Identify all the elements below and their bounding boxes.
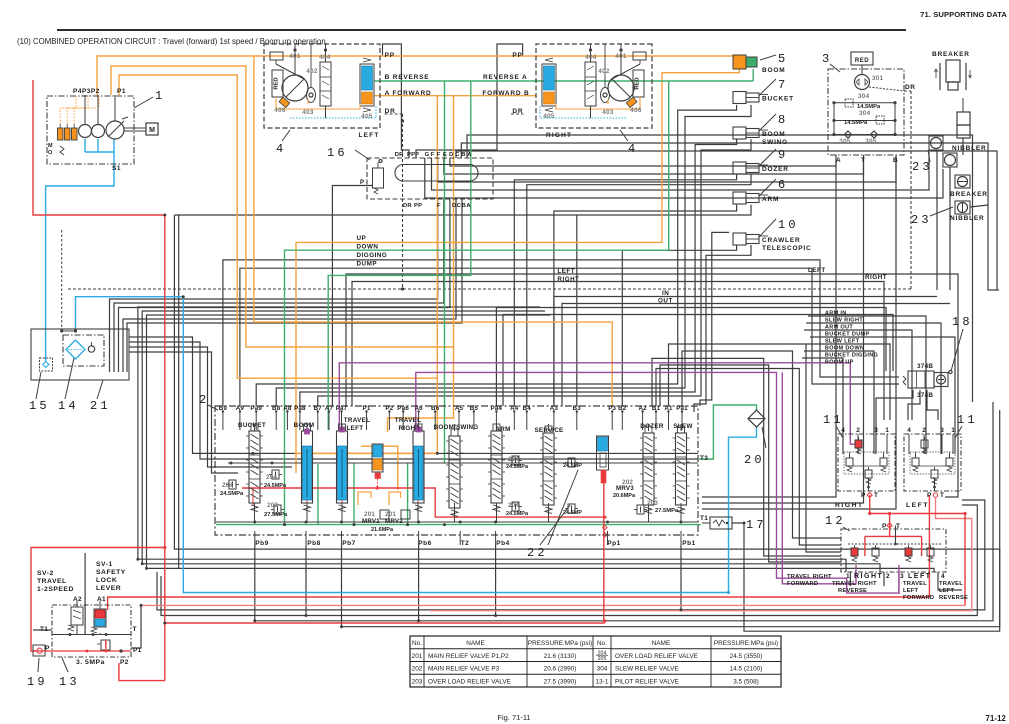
svg-text:9: 9 <box>778 148 788 162</box>
wire block16 P port west down to valve <box>332 186 372 407</box>
svg-text:23: 23 <box>912 160 933 174</box>
valve spool top stubs <box>254 424 256 431</box>
drain dash right motor DR <box>511 113 523 115</box>
relief MRV1 MRV2 <box>380 510 389 519</box>
travel left spool <box>337 431 348 503</box>
green tank bus T1 <box>216 524 701 526</box>
svg-text:F: F <box>437 203 441 209</box>
purple travel right pilot line <box>416 372 899 593</box>
svg-text:24.5MPa: 24.5MPa <box>220 491 244 497</box>
nibbler symbol top <box>962 98 964 112</box>
svg-text:RIGHT: RIGHT <box>854 573 883 580</box>
green short riser travel right <box>407 463 409 525</box>
svg-text:18: 18 <box>952 315 973 329</box>
svg-text:MAIN RELIEF VALVE P1,P2: MAIN RELIEF VALVE P1,P2 <box>428 653 509 660</box>
svg-text:304: 304 <box>858 93 870 100</box>
wire block12 port stubs <box>849 572 851 586</box>
drain dash left motor DR <box>385 113 403 115</box>
travel pilot block 12 outline <box>841 529 946 572</box>
svg-text:374B: 374B <box>917 392 933 399</box>
filter diamond 14 <box>66 340 85 359</box>
svg-text:305: 305 <box>865 138 877 145</box>
svg-text:No.: No. <box>597 640 607 647</box>
svg-text:P: P <box>360 180 364 186</box>
wire block16 staircase east D <box>450 158 836 166</box>
purple second riser to item 12 <box>782 372 856 583</box>
svg-text:20.6 (2990): 20.6 (2990) <box>544 666 577 673</box>
wire second left vertical <box>178 215 180 568</box>
svg-text:404: 404 <box>319 54 331 61</box>
svg-text:14.5MPa: 14.5MPa <box>844 120 868 126</box>
svg-text:1-2SPEED: 1-2SPEED <box>37 586 74 593</box>
svg-text:T: T <box>896 523 900 530</box>
wire slew left pilot line <box>806 344 890 420</box>
wire Pb9 pilot route <box>255 402 993 621</box>
wire block16 staircase east A <box>467 135 973 402</box>
svg-text:4: 4 <box>276 142 286 156</box>
wire bottom bus 1 <box>157 500 985 610</box>
svg-text:Pb1: Pb1 <box>682 540 695 547</box>
svg-text:24.5MP: 24.5MP <box>563 463 582 469</box>
svg-text:No.: No. <box>412 640 422 647</box>
wire block16 staircase east B <box>461 143 999 290</box>
svg-text:402: 402 <box>306 68 318 75</box>
relief valve 204 service upper <box>568 458 575 467</box>
sv2 solenoid valve <box>71 607 83 625</box>
boom connector item 5 orange square <box>733 55 746 69</box>
svg-text:P: P <box>861 492 866 499</box>
pump main circle <box>106 121 124 139</box>
wire block16 staircase east E <box>444 158 864 174</box>
orange main gallery in valve block <box>295 452 438 454</box>
wire tank east link 3 <box>129 347 292 467</box>
wire sv P1 east <box>131 605 141 648</box>
P3 inlet spool blue <box>597 436 609 470</box>
block13 T bus <box>52 634 131 636</box>
svg-text:RED: RED <box>274 77 280 89</box>
bucket spool <box>249 431 260 503</box>
svg-text:G: G <box>425 152 430 158</box>
svg-text:BOOM UP: BOOM UP <box>825 360 854 366</box>
arm spool <box>491 431 502 503</box>
travel motor internal wires <box>294 44 296 75</box>
svg-text:TRAVEL: TRAVEL <box>903 581 927 587</box>
wire travel left label line <box>346 274 958 497</box>
boom spool <box>302 431 313 503</box>
svg-text:BUCKET DIGGING: BUCKET DIGGING <box>825 353 878 359</box>
svg-text:3: 3 <box>874 427 878 434</box>
svg-text:DR: DR <box>512 108 523 115</box>
relief valve service lower <box>568 504 575 513</box>
travel motor block 4 LEFT group <box>264 44 380 128</box>
wire Pb6 pilot route <box>418 545 420 621</box>
relief 203 dozer <box>637 505 644 514</box>
svg-text:OVER LOAD RELIEF VALVE: OVER LOAD RELIEF VALVE <box>615 653 698 660</box>
travel motor circle <box>608 75 634 101</box>
svg-text:Fig. 71-11: Fig. 71-11 <box>497 713 530 722</box>
svg-text:203: 203 <box>647 500 658 507</box>
svg-text:Pp1: Pp1 <box>607 540 620 547</box>
svg-text:21: 21 <box>90 399 111 413</box>
travel motor brake box 401 <box>633 52 646 60</box>
svg-text:BOOM: BOOM <box>294 422 315 429</box>
wire block16 staircase east F <box>438 158 896 182</box>
slew relief 304 lower <box>876 116 884 124</box>
red second bottom line <box>430 498 972 611</box>
travel motor circle <box>282 75 308 101</box>
orange gallery segment right <box>361 446 398 490</box>
valve bottom port stubs <box>254 531 256 545</box>
travel motor RED tag <box>633 70 644 97</box>
green T3 to check valve 20 <box>699 405 757 459</box>
pilot manifold block 16 outline <box>367 158 493 199</box>
svg-text:REVERSE: REVERSE <box>939 595 968 601</box>
wire out line <box>562 304 950 407</box>
relief valve 203 boom <box>274 505 281 514</box>
svg-text:2: 2 <box>856 427 860 434</box>
svg-text:27.5MPa: 27.5MPa <box>655 508 679 514</box>
block 13 outline <box>52 605 131 657</box>
svg-text:A: A <box>836 157 841 164</box>
svg-text:24.5MPa: 24.5MPa <box>506 464 529 470</box>
svg-text:11: 11 <box>957 413 978 427</box>
check valve item 20 diamond <box>748 410 765 427</box>
item 18 solenoid valve 374B <box>903 376 906 385</box>
pump unit block 1 outline <box>47 96 134 164</box>
travel motor internal wires <box>620 44 622 75</box>
svg-text:8: 8 <box>778 113 788 127</box>
drain dashed line horizontal <box>68 288 911 290</box>
wire sv block T1 line <box>33 629 52 631</box>
svg-text:T1: T1 <box>700 515 708 522</box>
svg-text:204: 204 <box>222 482 233 489</box>
main control valve block 2 outline <box>215 406 698 535</box>
cyan filter to tank long line <box>76 297 757 593</box>
wire right mid riser 3 <box>669 344 842 552</box>
red main relief gallery valve block <box>242 488 604 517</box>
svg-text:RIGHT: RIGHT <box>865 274 887 281</box>
svg-text:E: E <box>443 152 447 158</box>
svg-text:3: 3 <box>940 427 944 434</box>
motor box M <box>146 123 158 135</box>
orange bracket mrv1 <box>358 492 371 505</box>
red sv-1 A1 pilot line east <box>108 495 930 610</box>
svg-text:16: 16 <box>327 146 348 160</box>
wire digging line <box>223 260 899 406</box>
svg-text:FORWARD: FORWARD <box>787 581 818 587</box>
svg-text:Pb8: Pb8 <box>307 540 320 547</box>
sv1 solenoid valve <box>94 609 106 627</box>
travel motor block 4 outline <box>536 44 652 128</box>
svg-text:1: 1 <box>155 89 165 103</box>
travel motor shuttle 403 <box>307 88 316 103</box>
dozer connector item 9 <box>733 162 746 174</box>
breaker nibbler wires <box>936 150 938 290</box>
svg-text:204: 204 <box>266 474 277 481</box>
wire bottom bus 2 <box>161 505 977 616</box>
svg-text:FORWARD B: FORWARD B <box>482 90 529 97</box>
svg-text:27.5 (3990): 27.5 (3990) <box>544 678 577 685</box>
svg-text:B: B <box>461 152 465 158</box>
svg-text:PP: PP <box>414 203 422 209</box>
svg-text:4: 4 <box>907 427 911 434</box>
svg-text:RED: RED <box>855 58 869 64</box>
svg-text:Pb9: Pb9 <box>255 540 268 547</box>
svg-text:LEFT: LEFT <box>903 588 919 594</box>
svg-text:BREAKER: BREAKER <box>932 51 970 58</box>
svg-text:19: 19 <box>27 675 48 689</box>
travel motor internal cyan dotted drain <box>290 106 376 118</box>
svg-text:203: 203 <box>267 502 278 509</box>
svg-text:305: 305 <box>839 138 851 145</box>
svg-text:DR: DR <box>905 84 915 91</box>
dozer spool <box>643 433 654 505</box>
page header rule <box>57 29 906 31</box>
wire tank east link 1 <box>129 337 216 453</box>
svg-text:DR: DR <box>403 203 412 209</box>
svg-text:404: 404 <box>585 54 597 61</box>
svg-text:LEFT: LEFT <box>908 573 932 580</box>
svg-text:REVERSE: REVERSE <box>838 588 867 594</box>
wire Pb7 pilot route <box>342 410 1000 627</box>
svg-text:RIGHT: RIGHT <box>557 276 579 283</box>
wire dozer connector line 1 <box>514 174 736 406</box>
svg-text:A1: A1 <box>97 596 106 603</box>
svg-text:406: 406 <box>630 107 642 114</box>
svg-text:S1: S1 <box>112 165 121 172</box>
svg-text:Pb4: Pb4 <box>496 540 509 547</box>
svg-text:NAME: NAME <box>652 640 670 647</box>
orange pump P3 supply line <box>119 75 437 378</box>
svg-text:LEFT: LEFT <box>808 267 826 274</box>
svg-text:24.5MPa: 24.5MPa <box>506 511 529 517</box>
wire staircase to nibbler <box>425 158 943 198</box>
svg-text:201: 201 <box>385 511 396 518</box>
orange travel supply down to P2 <box>388 96 454 432</box>
svg-text:(10) COMBINED OPERATION CIRCUI: (10) COMBINED OPERATION CIRCUIT : Travel… <box>17 37 326 46</box>
travel speed spool blue <box>542 64 556 106</box>
svg-text:203: 203 <box>412 678 423 685</box>
green boom connector stub <box>752 69 754 81</box>
svg-text:21.6 (3130): 21.6 (3130) <box>544 653 577 660</box>
wire PP right motor to pilot block 16 <box>416 44 523 158</box>
svg-text:LEFT: LEFT <box>347 425 364 432</box>
svg-text:10: 10 <box>778 218 799 232</box>
svg-text:24.5 (3550): 24.5 (3550) <box>730 653 763 660</box>
svg-text:BUCKET: BUCKET <box>238 422 266 429</box>
relief valve 204 arm lower <box>512 502 519 511</box>
wire boom swing connector line 1 <box>300 139 737 406</box>
red pink long bottom line <box>141 604 965 606</box>
slew DR dotted <box>869 87 904 91</box>
svg-text:PRESSURE:MPa (psi): PRESSURE:MPa (psi) <box>714 640 778 647</box>
wire right mid riser 1 <box>652 358 841 556</box>
boom swing spool <box>449 436 460 508</box>
svg-text:Pb6: Pb6 <box>418 540 431 547</box>
svg-text:24.5MPa: 24.5MPa <box>264 483 287 489</box>
wire Pb4 pilot route <box>495 545 497 616</box>
wire PP left motor to pilot block 16 <box>383 44 410 158</box>
wire arm connector line 1 <box>554 205 737 406</box>
wire dozer connector line 2 <box>527 174 751 406</box>
svg-text:1: 1 <box>846 573 850 580</box>
wire arm in pilot line <box>808 316 926 454</box>
svg-text:3. 5MPa: 3. 5MPa <box>76 659 105 666</box>
orange pump P1 supply line <box>97 56 733 95</box>
orange P1 riser down <box>436 96 438 454</box>
wire crawler connector line 3 <box>700 232 729 406</box>
svg-text:2: 2 <box>886 573 890 580</box>
svg-text:BOOM/SWING: BOOM/SWING <box>434 424 479 431</box>
svg-text:P: P <box>927 492 932 499</box>
wire tank return 5 <box>127 199 462 372</box>
svg-text:PP: PP <box>385 52 395 59</box>
slew motor block 3 outline <box>828 69 904 155</box>
svg-text:D: D <box>449 152 453 158</box>
wire arm connector line 2 <box>577 205 751 406</box>
wire pump line y215 east <box>174 214 576 216</box>
svg-text:402: 402 <box>598 68 610 75</box>
red mrv3 drop <box>603 474 605 621</box>
svg-text:4: 4 <box>941 573 945 580</box>
svg-text:304: 304 <box>859 110 871 117</box>
nibbler symbol lower <box>955 201 970 214</box>
svg-text:NIBBLER: NIBBLER <box>950 215 985 222</box>
svg-text:21.6MPa: 21.6MPa <box>371 527 394 533</box>
svg-text:A FORWARD: A FORWARD <box>385 90 432 97</box>
svg-text:BOOM DOWN: BOOM DOWN <box>825 346 864 352</box>
pump port stubs <box>84 95 86 125</box>
slew motor circle <box>855 75 870 90</box>
green digging pilot line <box>328 81 471 430</box>
block16 oval body <box>395 165 478 182</box>
svg-text:SV-1: SV-1 <box>96 561 113 568</box>
svg-text:13-1: 13-1 <box>596 678 609 685</box>
wire crawler connector line 2 <box>694 245 751 412</box>
tank dashed drain in <box>61 230 63 331</box>
pump gear circle 1 <box>79 125 92 138</box>
svg-text:2: 2 <box>922 427 926 434</box>
bucket connector item 7 <box>733 92 746 104</box>
svg-text:5: 5 <box>778 52 788 66</box>
travel right spool <box>413 431 424 503</box>
orange plug 406 <box>626 97 637 107</box>
svg-text:22: 22 <box>527 546 548 560</box>
svg-text:LEFT: LEFT <box>939 588 955 594</box>
filter inner dash box <box>63 335 104 366</box>
svg-text:BUCKET: BUCKET <box>762 96 794 103</box>
svg-text:M: M <box>48 143 53 149</box>
wire slew motor port A down <box>702 155 836 497</box>
wire right mid riser 2 <box>660 365 841 562</box>
wire boom down pilot line <box>804 351 874 454</box>
orange boom up pilot from connector 5 <box>296 69 739 473</box>
green short riser boom swing <box>353 463 355 525</box>
pump shaft <box>124 127 146 129</box>
orange main gallery overlay <box>295 452 438 454</box>
svg-text:14: 14 <box>58 399 79 413</box>
svg-text:204: 204 <box>508 456 519 463</box>
svg-text:23: 23 <box>911 213 932 227</box>
valve spool bottom stubs <box>254 503 256 522</box>
slew RED tag <box>851 52 873 65</box>
cyan junction dot <box>727 591 730 594</box>
svg-text:TRAVEL: TRAVEL <box>939 581 963 587</box>
wire arm out pilot line <box>804 330 912 420</box>
svg-text:TRAVEL RIGHT: TRAVEL RIGHT <box>787 574 832 580</box>
svg-text:DOWN: DOWN <box>357 244 379 251</box>
cyan drain to filter box <box>46 139 114 361</box>
svg-text:PILOT RELIEF VALVE: PILOT RELIEF VALVE <box>615 678 679 685</box>
service spool <box>543 433 554 505</box>
svg-text:RIGHT: RIGHT <box>835 502 864 509</box>
svg-text:3: 3 <box>822 52 832 66</box>
svg-text:ARM OUT: ARM OUT <box>825 325 853 331</box>
block12 T drop <box>895 526 897 545</box>
green boom down pilot line <box>285 81 669 525</box>
svg-text:201: 201 <box>412 653 423 660</box>
slew spool <box>676 433 687 505</box>
wire bucket connector line 2 <box>276 105 751 406</box>
svg-text:DOZER: DOZER <box>762 166 789 173</box>
wire travel right label line <box>352 282 884 421</box>
wire right mid riser 4 <box>682 351 841 538</box>
purple travel left pilot line <box>339 363 856 444</box>
svg-text:FORWARD: FORWARD <box>903 595 934 601</box>
relief valve 204 bucket left <box>229 480 236 489</box>
wire slew motor port B down <box>702 155 896 509</box>
wire bucket dump pilot line <box>810 337 955 454</box>
svg-text:27.5MPa: 27.5MPa <box>264 512 288 518</box>
wire right mid riser 5 <box>656 369 841 546</box>
svg-text:TRAVEL RIGHT: TRAVEL RIGHT <box>832 581 877 587</box>
svg-text:NAME: NAME <box>466 640 484 647</box>
svg-text:T2: T2 <box>461 540 470 547</box>
svg-text:PPP: PPP <box>407 152 419 158</box>
svg-text:OUT: OUT <box>658 298 673 305</box>
wire crawler connector line 1 <box>622 245 736 406</box>
svg-text:P: P <box>882 523 887 530</box>
svg-text:LEVER: LEVER <box>96 585 121 592</box>
svg-text:4: 4 <box>841 427 845 434</box>
svg-text:20: 20 <box>744 453 765 467</box>
svg-text:374B: 374B <box>917 363 933 370</box>
valve internal bus line black <box>216 452 698 454</box>
svg-text:DUMP: DUMP <box>357 261 378 268</box>
svg-text:ARM: ARM <box>495 426 510 433</box>
svg-text:12: 12 <box>825 514 846 528</box>
crawler telescopic connector item 10 <box>733 233 746 245</box>
red item 12 supply bus <box>869 514 965 606</box>
svg-text:O: O <box>48 150 53 156</box>
arm connector item 6 <box>733 192 746 204</box>
wire slew right pilot line <box>806 323 941 454</box>
cyan pump drain lines <box>84 139 86 152</box>
svg-text:LEFT: LEFT <box>557 268 575 275</box>
svg-text:301: 301 <box>872 75 884 82</box>
wire bucket digging pilot line <box>802 358 843 454</box>
slew internal bus lines <box>834 102 895 104</box>
svg-text:REVERSE A: REVERSE A <box>483 74 528 81</box>
red item 12 P drop <box>889 514 891 537</box>
svg-text:304: 304 <box>597 666 608 673</box>
svg-text:SLEW RIGHT: SLEW RIGHT <box>825 318 863 324</box>
svg-text:TRAVEL: TRAVEL <box>37 578 67 585</box>
wire sv travel signal 3 <box>147 315 935 572</box>
red branch to item 19 <box>31 548 165 652</box>
svg-text:3: 3 <box>900 573 904 580</box>
travel motor RED tag <box>272 70 283 97</box>
